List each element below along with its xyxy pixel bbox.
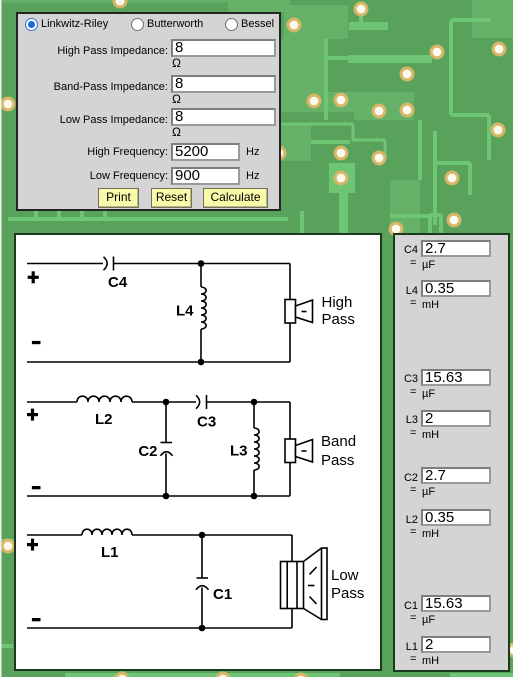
capacitor C4 — [104, 257, 114, 271]
band-pass negative terminal - — [32, 486, 41, 489]
label C4 — [108, 274, 128, 291]
wire: low-pass bottom rail — [27, 627, 292, 629]
svg-text:L4: L4 — [176, 303, 194, 320]
node: L1 / C1 junction — [199, 532, 206, 539]
wire: band-pass bottom rail — [27, 495, 290, 497]
svg-text:Pass: Pass — [321, 452, 354, 469]
node: L3 bottom junction — [251, 493, 258, 500]
node: C4 to L4 junction (top) — [198, 260, 205, 267]
result L1 value — [395, 641, 418, 654]
speaker: band-pass tweeter — [285, 439, 313, 463]
speaker: high-pass tweeter — [285, 300, 313, 324]
wire: high-pass bottom rail — [27, 361, 290, 363]
wire: high-pass top rail right segment — [114, 263, 291, 265]
high-pass positive terminal + — [28, 271, 39, 283]
svg-text:L2: L2 — [95, 411, 113, 428]
band-pass positive terminal + — [27, 409, 38, 421]
result L2 value — [395, 514, 418, 527]
wire: high-pass speaker branch — [289, 264, 291, 363]
svg-text:L3: L3 — [230, 443, 248, 460]
svg-text:C1: C1 — [213, 586, 232, 603]
result L4 value — [395, 285, 418, 298]
radio Bessel — [225, 18, 238, 31]
radio Butterworth — [131, 18, 144, 31]
capacitor C1 — [196, 535, 209, 628]
svg-text:L1: L1 — [101, 544, 119, 561]
wire: low-pass speaker branch — [291, 535, 293, 628]
wire: band-pass speaker branch — [289, 402, 291, 496]
speaker: low-pass woofer — [281, 548, 328, 620]
wire: low-pass top rail right segment — [132, 534, 292, 536]
radio Linkwitz-Riley (selected) — [25, 18, 38, 31]
svg-text:Low: Low — [331, 567, 359, 584]
label C3 — [197, 414, 216, 431]
label L4 — [176, 303, 194, 320]
label Low Pass — [331, 567, 364, 602]
node: C1 bottom junction — [199, 625, 206, 632]
result C4 value — [395, 244, 418, 257]
label L1 — [101, 544, 119, 561]
svg-text:Pass: Pass — [322, 311, 355, 328]
wire: band-pass top rail left segment — [27, 401, 77, 403]
label L2 — [95, 411, 113, 428]
label C2 — [138, 443, 157, 460]
low-pass negative terminal - — [32, 618, 41, 621]
svg-text:C2: C2 — [138, 443, 157, 460]
capacitor C2 — [161, 402, 173, 496]
inductor L3 — [254, 402, 259, 496]
svg-text:High: High — [322, 294, 353, 311]
inductor L1 — [82, 529, 132, 535]
label High Pass — [322, 294, 355, 328]
inductor L4 — [201, 264, 206, 363]
node: C2 bottom junction — [163, 493, 170, 500]
node: L4 bottom junction — [198, 359, 205, 366]
wire: low-pass top rail left segment — [27, 534, 82, 536]
wire: high-pass top rail left segment — [27, 263, 103, 265]
label L3 — [230, 443, 248, 460]
label Band Pass — [321, 433, 356, 469]
svg-text:Pass: Pass — [331, 585, 364, 602]
svg-text:C4: C4 — [108, 274, 128, 291]
wire: band-pass top rail middle segment — [132, 401, 196, 403]
low-pass positive terminal + — [27, 539, 38, 551]
result L3 value — [395, 414, 418, 427]
high-pass negative terminal - — [32, 341, 41, 344]
label C1 — [213, 586, 232, 603]
svg-text:C3: C3 — [197, 414, 216, 431]
inductor L2 — [77, 396, 132, 402]
result C1 value — [395, 600, 418, 613]
result C3 value — [395, 373, 418, 386]
svg-text:Band: Band — [321, 433, 356, 450]
capacitor C3 — [196, 395, 207, 409]
wire: band-pass top rail right segment — [207, 401, 291, 403]
node: C3 / L3 junction — [251, 399, 258, 406]
node: L2 / C2 / C3 junction — [163, 399, 170, 406]
result C2 value — [395, 472, 418, 485]
